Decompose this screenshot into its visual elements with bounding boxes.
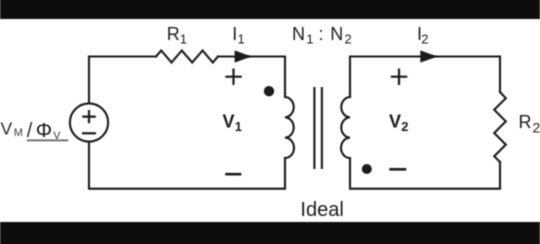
wire: R2 to secondary bottom (350, 158, 500, 189)
svg-text:N: N (330, 24, 343, 44)
svg-text:R: R (519, 112, 532, 132)
V2 polarity plus (391, 69, 407, 86)
source minus sign (82, 132, 96, 134)
svg-text:1: 1 (238, 32, 245, 47)
svg-text:M: M (14, 127, 23, 139)
resistor R2 (494, 92, 506, 162)
wire: secondary top segment to R2 (350, 57, 500, 98)
transformer core bars (313, 88, 315, 168)
polarity dot secondary (362, 164, 372, 174)
svg-text:I: I (232, 24, 237, 44)
polarity dot primary (264, 86, 274, 96)
current arrow I2 (420, 50, 437, 62)
V1 polarity minus (225, 173, 241, 176)
source plus sign (82, 110, 95, 123)
top letterbox bar (0, 0, 540, 19)
svg-text:V: V (223, 111, 235, 131)
svg-text:2: 2 (345, 32, 352, 47)
svg-text:2: 2 (401, 119, 408, 134)
wire: R1 to primary top corner (218, 57, 285, 98)
wire: primary bottom segment (89, 142, 285, 189)
svg-text:2: 2 (533, 120, 540, 136)
inductor primary winding L1 (285, 97, 294, 158)
svg-text::: : (319, 24, 324, 44)
svg-text:Ideal: Ideal (300, 199, 343, 221)
V1 polarity plus (225, 69, 242, 86)
current arrow I1 (235, 50, 252, 62)
svg-text:1: 1 (306, 32, 313, 47)
inductor secondary winding L2 (341, 97, 350, 158)
wire: top-left segment from source to R1 (89, 57, 156, 104)
svg-text:1: 1 (180, 32, 187, 47)
underline of angle notation (27, 139, 68, 141)
svg-text:1: 1 (235, 119, 242, 134)
bottom letterbox bar (0, 222, 540, 244)
svg-text:V: V (389, 111, 401, 131)
svg-text:Φ: Φ (36, 119, 52, 142)
svg-text:R: R (167, 24, 180, 44)
svg-text:V: V (1, 119, 13, 139)
svg-text:/: / (27, 120, 33, 142)
resistor R1 (156, 51, 218, 63)
svg-text:2: 2 (421, 32, 428, 47)
source V_M circle (70, 103, 108, 141)
svg-text:N: N (292, 24, 305, 44)
V2 polarity minus (389, 168, 406, 171)
